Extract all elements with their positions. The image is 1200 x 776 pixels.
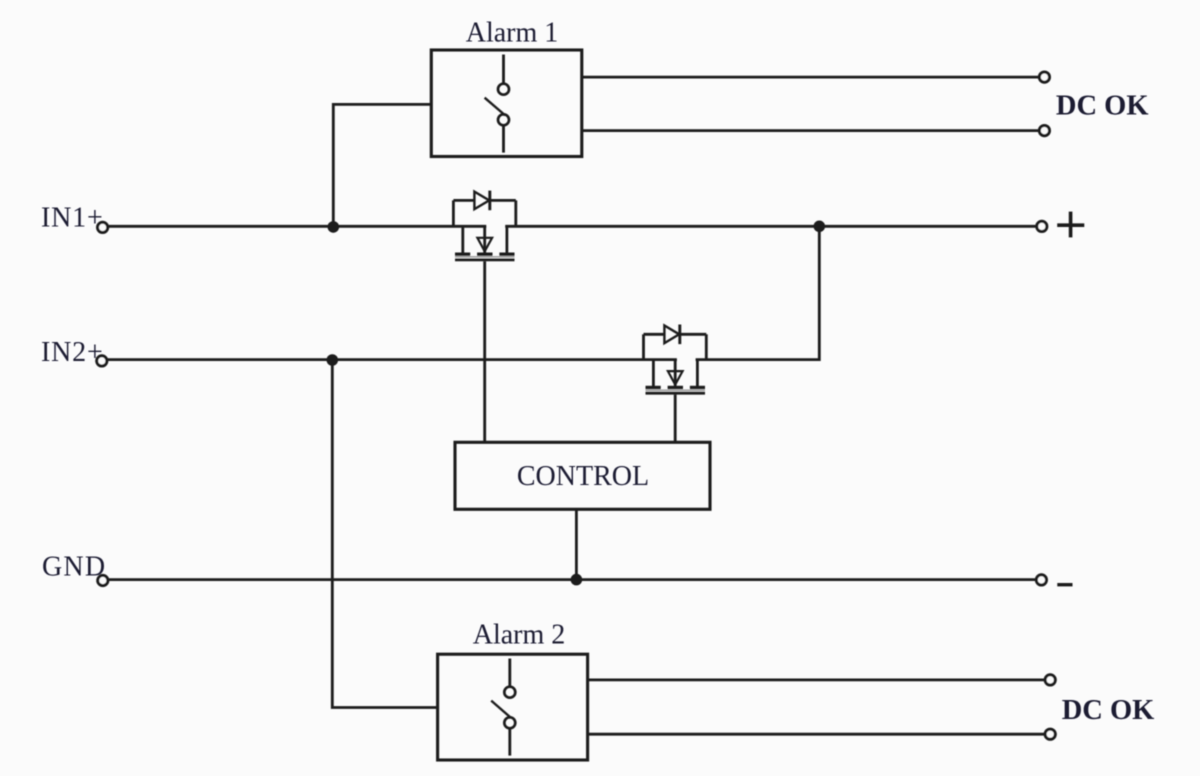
wire IN2 junction down to Alarm2 xyxy=(332,360,437,708)
wire IN2 rail left xyxy=(107,358,677,361)
wire Alarm2 output bottom xyxy=(588,733,1045,736)
junction dot IN2 xyxy=(327,354,339,366)
Q2 channel line xyxy=(646,389,706,391)
wire plus rail right xyxy=(505,225,1036,228)
svg-text:DC OK: DC OK xyxy=(1062,695,1155,726)
terminal IN2+ xyxy=(97,356,107,366)
wire M2 drain to plus rail xyxy=(696,226,820,359)
terminal plus output xyxy=(1037,221,1047,231)
svg-text:IN2+: IN2+ xyxy=(41,337,104,368)
junction dot IN1/Alarm1 xyxy=(328,221,340,233)
transistor Q1 mosfet with body diode xyxy=(453,191,515,260)
Q2 drain stub xyxy=(696,360,699,387)
svg-text:DC OK: DC OK xyxy=(1056,90,1149,121)
diode D2 body xyxy=(664,326,679,344)
svg-text:Alarm 1: Alarm 1 xyxy=(466,17,559,48)
box Alarm1 xyxy=(431,50,582,157)
Q1 channel line xyxy=(455,256,515,258)
Q2 body stub with arrow xyxy=(674,360,677,387)
terminal DC OK top a xyxy=(1039,72,1049,82)
diode D1 body xyxy=(474,192,489,210)
switch S1 xyxy=(485,55,509,153)
wire Alarm1 output top xyxy=(582,76,1039,79)
svg-text:IN1+: IN1+ xyxy=(41,203,104,234)
svg-text:GND: GND xyxy=(42,551,106,582)
wire Alarm1 left lead xyxy=(333,104,431,226)
transistor Q2 mosfet with body diode xyxy=(644,325,707,394)
terminal minus output xyxy=(1036,575,1046,585)
terminal GND xyxy=(98,575,108,585)
wire Q1 gate to control xyxy=(483,261,486,442)
wire Alarm1 output bottom xyxy=(582,129,1039,132)
box CONTROL xyxy=(455,442,710,509)
minus symbol xyxy=(1057,583,1072,586)
Q1 channel contacts xyxy=(455,252,470,255)
Q1 drain stub xyxy=(505,226,508,253)
Q1 body stub with arrow xyxy=(483,226,486,253)
terminal DC OK bottom b xyxy=(1045,729,1055,739)
box Alarm2 xyxy=(438,654,588,760)
wire Q2 gate to control xyxy=(674,395,677,443)
Q1 gate bar xyxy=(455,258,515,261)
terminal DC OK top b xyxy=(1039,126,1049,136)
wire IN1 rail left xyxy=(108,225,486,228)
terminal IN1+ xyxy=(98,222,108,232)
Q2 source stub xyxy=(652,360,655,387)
wire GND rail xyxy=(108,578,1036,581)
switch S2 xyxy=(491,659,515,756)
Q1 source stub xyxy=(461,226,464,253)
wire control to gnd rail xyxy=(575,509,578,579)
junction dot control/gnd xyxy=(571,574,583,586)
Q2 gate bar xyxy=(646,392,706,395)
svg-text:CONTROL: CONTROL xyxy=(517,461,649,492)
svg-text:Alarm 2: Alarm 2 xyxy=(473,620,566,651)
plus symbol xyxy=(1057,212,1084,238)
wire Alarm2 output top xyxy=(588,679,1045,682)
junction dot plus rail / M2 xyxy=(814,221,826,233)
terminal DC OK bottom a xyxy=(1045,675,1055,685)
Q2 channel contacts xyxy=(646,386,661,389)
